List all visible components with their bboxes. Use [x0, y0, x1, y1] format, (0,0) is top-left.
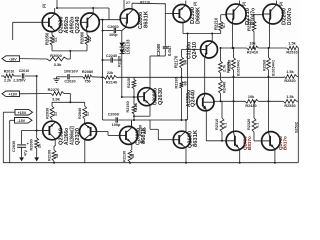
svg-text:47µ: 47µ — [24, 150, 28, 156]
svg-text:R2170: R2170 — [174, 55, 179, 68]
svg-text:B817o: B817o — [282, 136, 287, 150]
svg-text:R2050: R2050 — [45, 32, 50, 45]
svg-text:100/16V: 100/16V — [64, 70, 79, 74]
svg-text:R2210: R2210 — [213, 17, 218, 30]
svg-text:750: 750 — [84, 79, 90, 83]
svg-text:10k: 10k — [249, 42, 256, 46]
svg-text:0.1: 0.1 — [256, 123, 260, 128]
svg-text:R2410: R2410 — [247, 51, 258, 55]
svg-text:R2420: R2420 — [227, 62, 231, 73]
svg-text:-18V: -18V — [9, 57, 17, 61]
svg-text:Q2440: Q2440 — [191, 90, 197, 107]
svg-text:Q2410: Q2410 — [192, 42, 198, 59]
svg-text:B817o: B817o — [247, 136, 252, 150]
svg-text:2.1k: 2.1k — [134, 102, 138, 110]
svg-text:R2010: R2010 — [4, 70, 15, 74]
svg-text:Q2320: Q2320 — [75, 128, 81, 145]
svg-text:R2080: R2080 — [82, 70, 93, 74]
svg-text:C2000: C2000 — [108, 112, 119, 116]
svg-text:R2440: R2440 — [223, 82, 227, 93]
svg-text:2.2k: 2.2k — [4, 78, 11, 82]
svg-text:R2090: R2090 — [30, 139, 34, 150]
svg-text:R2100: R2100 — [48, 150, 52, 161]
svg-text:68: 68 — [183, 81, 187, 85]
svg-text:C2030: C2030 — [12, 141, 16, 152]
svg-text:R2220: R2220 — [247, 18, 252, 31]
svg-text:0.1: 0.1 — [224, 123, 228, 128]
svg-text:0.047: 0.047 — [167, 45, 172, 56]
svg-text:C2020: C2020 — [64, 80, 75, 84]
svg-text:R2310: R2310 — [215, 119, 219, 130]
svg-text:R2430: R2430 — [245, 104, 256, 108]
svg-text:C2240: C2240 — [106, 54, 117, 58]
svg-text:C2080: C2080 — [156, 43, 161, 56]
svg-text:1SS133: 1SS133 — [126, 39, 131, 55]
svg-text:+18V: +18V — [8, 93, 17, 97]
svg-text:68: 68 — [183, 59, 188, 64]
svg-text:27: 27 — [126, 1, 130, 5]
svg-text:D668K: D668K — [196, 7, 202, 24]
svg-text:68: 68 — [140, 140, 144, 144]
svg-text:2.2/50V: 2.2/50V — [13, 79, 26, 83]
svg-text:R2060: R2060 — [80, 31, 85, 44]
svg-text:100p: 100p — [112, 123, 121, 127]
svg-text:R2150: R2150 — [127, 77, 131, 88]
svg-text:B1S1544×2: B1S1544×2 — [237, 60, 241, 76]
svg-text:(2): (2) — [42, 4, 46, 8]
svg-text:100p: 100p — [109, 33, 118, 37]
svg-text:S2532: S2532 — [295, 122, 299, 133]
svg-text:1.5k: 1.5k — [286, 70, 294, 74]
svg-text:R2000: R2000 — [50, 53, 63, 58]
svg-text:R2140: R2140 — [106, 81, 117, 85]
svg-text:R2180: R2180 — [174, 77, 178, 88]
svg-text:68: 68 — [131, 154, 135, 158]
svg-text:22: 22 — [54, 112, 58, 116]
svg-text:1.5k: 1.5k — [288, 42, 296, 46]
svg-text:22: 22 — [86, 112, 90, 116]
svg-text:R2510: R2510 — [286, 51, 297, 55]
svg-text:1.5k: 1.5k — [286, 95, 294, 99]
svg-text:22: 22 — [87, 36, 92, 41]
svg-text:3.3k: 3.3k — [54, 62, 63, 67]
svg-text:B1S1544×2: B1S1544×2 — [272, 60, 276, 76]
svg-text:R2200: R2200 — [139, 125, 143, 136]
svg-text:(2): (2) — [193, 2, 197, 6]
svg-text:R2120: R2120 — [117, 56, 121, 67]
svg-text:+15V: +15V — [17, 111, 26, 115]
svg-text:Q2630: Q2630 — [158, 88, 164, 105]
svg-text:4.7: 4.7 — [222, 23, 226, 28]
svg-text:Q2240: Q2240 — [75, 16, 81, 33]
svg-text:R2530: R2530 — [284, 104, 295, 108]
svg-text:R2270: R2270 — [48, 87, 61, 92]
svg-text:R2320: R2320 — [247, 119, 251, 130]
svg-text:C2010: C2010 — [19, 69, 30, 73]
svg-text:R2260: R2260 — [262, 60, 266, 71]
svg-text:-15V: -15V — [17, 119, 25, 123]
svg-text:3.9k: 3.9k — [52, 96, 61, 101]
svg-text:R2520: R2520 — [284, 79, 295, 83]
svg-text:R2110: R2110 — [140, 1, 150, 5]
svg-text:22: 22 — [53, 37, 58, 42]
svg-text:R2040: R2040 — [78, 108, 82, 119]
svg-text:10k: 10k — [248, 95, 255, 99]
svg-text:R2130: R2130 — [123, 151, 127, 162]
svg-text:8631K: 8631K — [144, 11, 150, 28]
svg-text:22k: 22k — [107, 71, 114, 75]
svg-text:(2): (2) — [279, 2, 283, 6]
svg-text:8631K: 8631K — [193, 130, 199, 147]
svg-text:220: 220 — [143, 128, 147, 134]
svg-text:R2160: R2160 — [126, 101, 130, 112]
svg-text:C2060: C2060 — [107, 25, 118, 29]
svg-text:(2): (2) — [242, 2, 246, 6]
svg-text:R2030: R2030 — [46, 108, 50, 119]
svg-text:D1047o: D1047o — [287, 8, 293, 25]
